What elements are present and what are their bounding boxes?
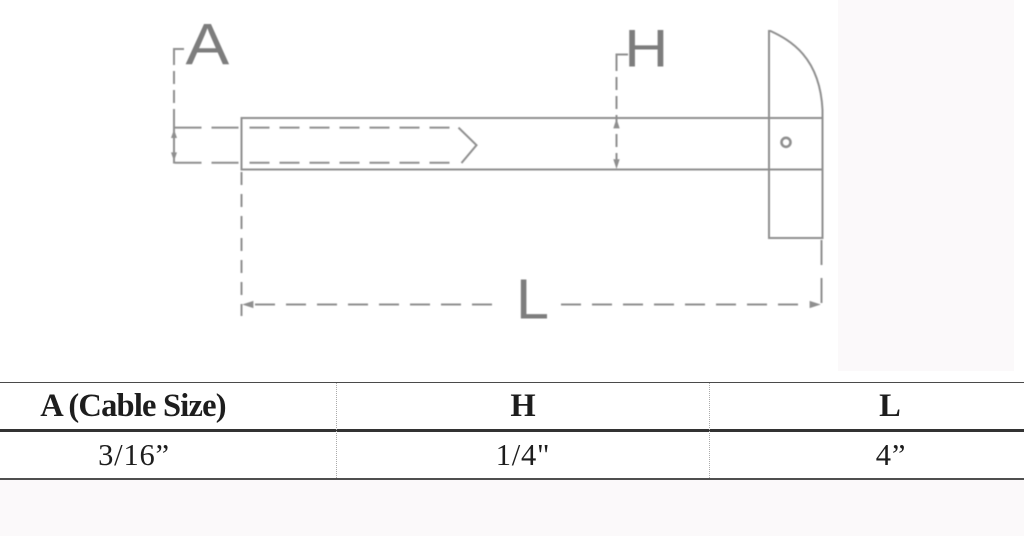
dimension L dashed line left part	[255, 304, 502, 306]
dimension H arrow down	[613, 159, 619, 169]
dimension A solid segment	[173, 122, 175, 164]
table top border	[0, 382, 1024, 384]
table column separator 1	[336, 383, 337, 478]
svg-text:A: A	[186, 13, 230, 78]
dimension L arrow left	[242, 301, 253, 308]
dimension L right extension dashed line	[821, 240, 823, 305]
dimension H extension dashed line	[616, 58, 618, 170]
svg-text:L: L	[516, 268, 549, 332]
head (stop flange) outline	[769, 31, 823, 238]
cable end chevron	[459, 128, 477, 163]
dimension L arrow right	[810, 301, 821, 308]
dimension L dashed line right part	[561, 304, 808, 306]
header cell L	[879, 388, 901, 425]
header cell H	[510, 388, 535, 425]
dimension A extension dashed line	[173, 52, 175, 122]
table bottom border	[0, 478, 1024, 480]
dimension A leader hook	[174, 49, 184, 52]
data cell 4	[876, 438, 906, 473]
cable bottom dashed line inside body	[250, 162, 460, 164]
header cell A (Cable Size)	[40, 388, 226, 425]
svg-text:H: H	[624, 19, 668, 78]
dimension A arrow up	[171, 129, 177, 138]
cable top dashed line	[175, 127, 240, 129]
hole in head	[782, 138, 791, 147]
table middle border	[0, 429, 1024, 432]
cable bottom dashed line	[175, 162, 240, 164]
dimension H leader hook	[617, 55, 629, 59]
table column separator 2	[709, 383, 710, 478]
page background strip right	[838, 0, 1014, 371]
body (swage sleeve) rectangle	[242, 118, 823, 170]
dimension L left extension dashed line	[241, 172, 243, 316]
dimension H arrow up	[613, 119, 619, 129]
cable top dashed line inside body	[250, 127, 458, 129]
page background strip bottom	[0, 479, 1024, 536]
dimension A arrow down	[171, 152, 177, 161]
data cell 1/4	[496, 438, 551, 473]
data cell 3/16	[98, 438, 170, 473]
